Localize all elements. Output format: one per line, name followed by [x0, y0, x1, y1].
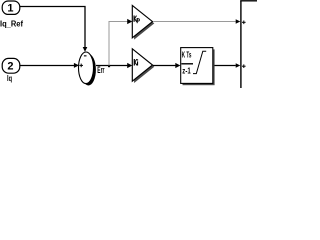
add plus sign bottom — [242, 64, 246, 68]
junction at branch — [108, 65, 110, 67]
add plus sign top — [242, 21, 246, 25]
svg-text:Iq_Ref: Iq_Ref — [0, 20, 23, 29]
svg-text:z-1: z-1 — [182, 67, 191, 76]
sum block shadow — [81, 54, 96, 86]
sum block — [79, 52, 94, 84]
arrowhead into add (bottom) — [236, 63, 241, 68]
wire Ki output to integrator — [153, 65, 176, 67]
fraction bar — [181, 63, 193, 65]
svg-text:K Ts: K Ts — [182, 51, 192, 60]
branch wire up to Kp gain — [109, 22, 128, 66]
wire Kp output to add block — [154, 21, 236, 23]
gain Kp shadow — [134, 7, 154, 39]
wire integrator output to add block — [214, 65, 235, 67]
svg-text:Err: Err — [97, 65, 104, 75]
integrator icon — [193, 51, 206, 73]
gain Ki shadow — [134, 51, 154, 83]
arrowhead into integrator — [175, 63, 180, 68]
wire from inport 2 to sum left — [20, 65, 75, 67]
gain Ki — [132, 49, 152, 81]
wire sum output to Ki gain — [96, 65, 128, 67]
gain Kp — [132, 5, 152, 37]
wire from inport 1 to sum top — [20, 7, 85, 48]
sum sign minus (top input) — [84, 55, 87, 56]
svg-text:1: 1 — [7, 2, 13, 14]
arrowhead into Kp — [127, 19, 132, 24]
svg-text:Iq: Iq — [7, 74, 12, 83]
sum sign plus (left input) — [79, 64, 83, 68]
arrowhead into add (top) — [236, 19, 241, 24]
inport 2 — [2, 58, 20, 73]
add block (cut off at right edge) — [240, 1, 257, 88]
arrowhead into sum left — [74, 63, 79, 68]
arrowhead into Ki — [127, 63, 132, 68]
discrete integrator block — [181, 48, 213, 84]
arrowhead down into sum — [83, 47, 88, 52]
inport 1 — [2, 1, 20, 14]
svg-text:2: 2 — [7, 61, 13, 73]
discrete integrator shadow — [183, 49, 215, 85]
